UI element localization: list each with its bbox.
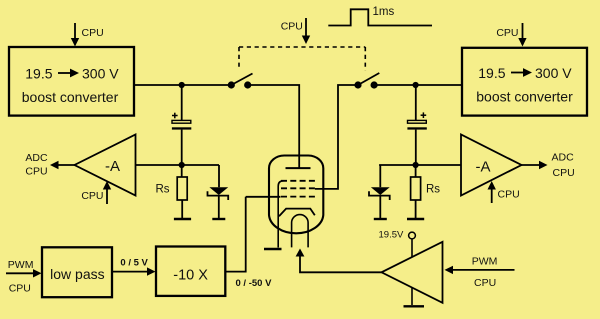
svg-text:ADC: ADC bbox=[25, 152, 48, 164]
label Rs (Rs1) bbox=[156, 184, 170, 196]
plus sign C1 bbox=[172, 113, 178, 119]
low pass box U3 bbox=[42, 247, 112, 297]
svg-text:-A: -A bbox=[105, 158, 120, 175]
svg-text:-10 X: -10 X bbox=[173, 268, 208, 284]
arrow glyph in U1 label bbox=[58, 69, 79, 78]
svg-text:PWM: PWM bbox=[8, 259, 34, 271]
label ADC CPU (A2 out) bbox=[552, 152, 575, 180]
label 0 / -50 V bbox=[236, 278, 273, 289]
A3 ground lead bbox=[411, 288, 413, 306]
arrow glyph in U2 label bbox=[511, 68, 532, 77]
dashed control line (left vertical to S1) bbox=[238, 47, 240, 70]
capacitor C1 lead (top) bbox=[181, 85, 183, 120]
node: junction J3 (cap C2 tap) bbox=[413, 82, 419, 88]
ground (D1) bbox=[212, 218, 225, 220]
label 1ms bbox=[373, 6, 395, 18]
resistor Rs2 lead (bottom) bbox=[415, 200, 417, 218]
node: junction J1 (cap C1 tap) bbox=[179, 82, 185, 88]
1ms pulse waveform bbox=[328, 9, 432, 25]
wire: U4 output to grid g1 bbox=[225, 197, 245, 272]
svg-text:CPU: CPU bbox=[81, 190, 103, 202]
wire: S2 to U2 bus bbox=[374, 84, 462, 86]
resistor Rs2 lead (top) bbox=[415, 165, 417, 177]
wire: S2 to tube screen grid g2 bbox=[315, 85, 358, 189]
label 19.5 -> 300 V (U1) bbox=[25, 66, 119, 82]
op-amp A1 bbox=[75, 135, 136, 196]
capacitor C1 lead (bottom) bbox=[181, 130, 183, 165]
plus sign C2 bbox=[421, 112, 427, 118]
svg-text:CPU: CPU bbox=[281, 21, 303, 33]
switch S2 bbox=[354, 73, 379, 89]
CPU control arrow into U1 bbox=[71, 23, 79, 47]
heater amp A3 bbox=[382, 242, 443, 303]
svg-text:boost converter: boost converter bbox=[22, 89, 119, 105]
wire: A1 output arrow to ADC bbox=[50, 161, 75, 169]
resistor Rs2 bbox=[411, 177, 421, 200]
svg-text:low pass: low pass bbox=[50, 266, 104, 282]
label boost converter (U2) bbox=[476, 89, 573, 105]
dashed control line (right vertical to S2) bbox=[364, 47, 366, 71]
19.5V supply terminal bbox=[409, 232, 416, 257]
label 0 / 5 V bbox=[120, 258, 148, 269]
svg-text:CPU: CPU bbox=[553, 167, 575, 179]
capacitor C2 lead (bottom) bbox=[415, 130, 417, 165]
svg-text:300 V: 300 V bbox=[82, 66, 119, 82]
cathode terminal bar bbox=[264, 248, 282, 250]
tube V1 grid g1 (dashes) bbox=[281, 196, 315, 198]
svg-text:19.5: 19.5 bbox=[478, 65, 505, 81]
label boost converter (U1) bbox=[22, 89, 119, 105]
svg-text:CPU: CPU bbox=[498, 189, 520, 201]
svg-text:300 V: 300 V bbox=[535, 65, 572, 81]
wire: grid g1 feed bbox=[246, 196, 281, 198]
label 19.5 -> 300 V (U2) bbox=[478, 65, 572, 81]
PWM input arrow into A3 bbox=[445, 266, 515, 274]
tube V1 heater bbox=[292, 215, 309, 248]
capacitor C2 lead (top) bbox=[415, 85, 417, 120]
label CPU (A1 ctl) bbox=[81, 190, 103, 202]
svg-text:CPU: CPU bbox=[25, 166, 47, 178]
svg-text:0 / -50 V: 0 / -50 V bbox=[236, 278, 273, 289]
PWM input arrow into U3 bbox=[6, 269, 42, 277]
zener D2 drop wire bbox=[379, 165, 381, 187]
wire: sense node left (A1 input) bbox=[136, 164, 220, 166]
label CPU (A2 ctl) bbox=[498, 189, 520, 201]
tube V1 grid g2 (dashes) bbox=[281, 187, 315, 189]
gain box U4 (-10 X) bbox=[156, 247, 225, 296]
svg-text:CPU: CPU bbox=[474, 277, 496, 289]
label CPU (U2) bbox=[496, 27, 518, 39]
label 19.5V bbox=[379, 230, 404, 241]
label CPU (U1) bbox=[82, 27, 104, 39]
tube V1 cathode bbox=[279, 209, 315, 217]
boost converter box U2 bbox=[462, 48, 587, 116]
zener D1 lead (bottom) bbox=[218, 196, 220, 218]
svg-text:PWM: PWM bbox=[472, 256, 498, 268]
svg-text:boost converter: boost converter bbox=[476, 89, 573, 105]
dashed control line (horizontal) bbox=[239, 46, 365, 48]
label -10 X bbox=[173, 268, 208, 284]
svg-text:19.5: 19.5 bbox=[25, 66, 52, 82]
capacitor C1 bbox=[172, 120, 191, 129]
wire: S1 to tube anode bbox=[248, 85, 300, 168]
node: junction J4 bbox=[413, 162, 419, 168]
svg-text:0 / 5 V: 0 / 5 V bbox=[120, 258, 148, 269]
CPU gain-control arrow into A2 bbox=[488, 181, 496, 203]
tube V1 grid g3 (dashes) bbox=[281, 180, 315, 182]
svg-text:-A: -A bbox=[476, 159, 491, 176]
wire: A2 output arrow to ADC bbox=[522, 161, 548, 169]
boost converter box U1 bbox=[9, 47, 134, 116]
zener D2 lead (bottom) bbox=[379, 196, 381, 218]
label PWM (A3) bbox=[472, 256, 498, 290]
ground (Rs2) bbox=[407, 218, 424, 220]
wire: U3 to U4 with arrow bbox=[112, 267, 156, 275]
resistor Rs1 bbox=[177, 177, 187, 200]
resistor Rs1 lead (bottom) bbox=[181, 200, 183, 218]
label ADC CPU (A1 out) bbox=[25, 152, 48, 178]
CPU control arrow into U2 bbox=[518, 23, 526, 47]
svg-text:Rs: Rs bbox=[426, 184, 440, 196]
zener D1 drop wire bbox=[218, 165, 220, 187]
label Rs (Rs2) bbox=[426, 184, 440, 196]
svg-text:19.5V: 19.5V bbox=[379, 230, 404, 241]
node: junction J2 bbox=[179, 162, 185, 168]
zener diode D1 bbox=[208, 187, 229, 200]
label CPU (center) bbox=[281, 21, 303, 33]
label low pass bbox=[50, 266, 104, 282]
capacitor C2 bbox=[407, 120, 426, 129]
tube V1 envelope bbox=[269, 155, 323, 233]
heater drive arrow bbox=[296, 249, 382, 273]
CPU control arrow (center, to switches) bbox=[302, 18, 310, 44]
tube V1 anode plate bbox=[286, 167, 311, 169]
label PWM (U3) bbox=[8, 259, 34, 295]
svg-text:Rs: Rs bbox=[156, 184, 170, 196]
CPU gain-control arrow into A1 bbox=[103, 181, 111, 204]
svg-text:ADC: ADC bbox=[552, 152, 575, 164]
label -A (A2) bbox=[476, 159, 491, 176]
svg-text:1ms: 1ms bbox=[373, 6, 395, 18]
svg-text:CPU: CPU bbox=[9, 283, 31, 295]
wire: sense node right (A2 input) bbox=[379, 164, 461, 166]
switch S1 bbox=[228, 74, 253, 89]
wire: U1 output bus to S1 bbox=[134, 84, 231, 86]
ground (A3) bbox=[404, 305, 425, 307]
tube V1 cathode/g3 lead bbox=[278, 181, 283, 248]
zener diode D2 bbox=[369, 187, 390, 200]
ground (D2) bbox=[374, 218, 387, 220]
resistor Rs1 lead (top) bbox=[181, 165, 183, 177]
op-amp A2 bbox=[461, 135, 522, 196]
svg-text:CPU: CPU bbox=[496, 27, 518, 39]
label -A (A1) bbox=[105, 158, 120, 175]
ground (Rs1) bbox=[174, 218, 191, 220]
svg-text:CPU: CPU bbox=[82, 27, 104, 39]
